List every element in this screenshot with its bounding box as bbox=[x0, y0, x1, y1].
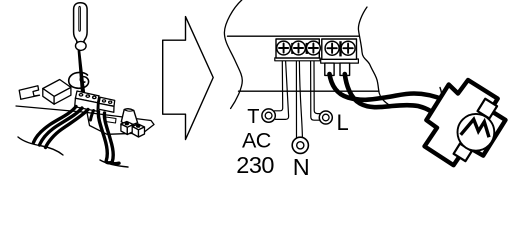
screw B2 bbox=[341, 41, 355, 55]
wire loop around shaft bbox=[69, 72, 89, 88]
screw 2 on block 2 bbox=[108, 101, 112, 104]
wire 1 of left bundle bbox=[34, 107, 77, 143]
mains wire upper to motor bbox=[330, 74, 445, 100]
screw 1 on block 2 bbox=[102, 99, 106, 102]
wire 2 of centre bundle bbox=[104, 113, 119, 164]
motor brush cap 2 bbox=[454, 144, 472, 162]
bench surface arc centre bbox=[100, 160, 128, 167]
svg-text:AC: AC bbox=[242, 128, 271, 152]
short wire stub under blocks bbox=[91, 111, 94, 121]
3D connector box (upper left) bbox=[43, 80, 71, 105]
3D terminal block 1 (3 screws) bbox=[75, 91, 99, 111]
panel torn edge left bbox=[224, 0, 242, 109]
panel torn edge right bbox=[358, 7, 388, 105]
bench surface arc left bbox=[18, 137, 63, 155]
screwdriver handle bbox=[74, 3, 88, 43]
wire 1 of centre bundle bbox=[98, 112, 112, 163]
screw 2 on block 1 bbox=[85, 94, 90, 98]
ring lug T bbox=[262, 109, 275, 122]
screwdriver ferrule bulb bbox=[76, 41, 87, 50]
mounting plate (right, perspective) bbox=[87, 113, 154, 135]
screw A3 bbox=[307, 41, 321, 55]
motor housing cross bbox=[425, 80, 506, 165]
ring lug N bbox=[292, 137, 308, 153]
svg-text:T: T bbox=[247, 106, 259, 128]
wire 3 of left bundle bbox=[46, 110, 89, 148]
ring lug L bbox=[319, 111, 332, 124]
wire 2 of left bundle bbox=[40, 108, 83, 145]
cube connector 1 on plate bbox=[121, 122, 133, 135]
screw A2 bbox=[292, 41, 306, 55]
screwdriver shaft bbox=[78, 50, 85, 94]
wire L vertical pair bbox=[311, 61, 320, 120]
wire T vertical pair bbox=[275, 61, 283, 111]
panel top line bbox=[228, 35, 360, 37]
divider bar block B bbox=[339, 41, 341, 56]
screw B1 bbox=[325, 41, 339, 55]
divider bars block A bbox=[291, 43, 293, 54]
clamp top rim bbox=[124, 110, 134, 112]
mounting plate back edge bbox=[16, 106, 88, 113]
mains wire lower to motor bbox=[345, 74, 441, 120]
motor brush cap 1 bbox=[478, 99, 498, 119]
arrow bbox=[163, 17, 214, 140]
cable sleeve stub 1 bbox=[325, 63, 334, 75]
motor circle bbox=[458, 114, 495, 151]
3D terminal block 2 (2 screws) bbox=[99, 97, 115, 112]
svg-text:N: N bbox=[293, 154, 310, 178]
sleeve tick marks bbox=[440, 88, 442, 110]
motor letter M bbox=[461, 119, 489, 137]
spade tab connector (upper left) bbox=[19, 86, 39, 100]
screw 1 on block 1 bbox=[79, 93, 84, 97]
cable sleeve stub 2 bbox=[340, 63, 350, 75]
cube connector 2 on plate bbox=[132, 124, 144, 137]
svg-text:L: L bbox=[337, 110, 349, 135]
terminal block A (3 poles) bbox=[275, 58, 320, 61]
screw 3 on block 1 bbox=[92, 96, 97, 100]
cable clamp on plate bbox=[121, 109, 137, 125]
terminal block B (2 poles) bbox=[321, 59, 359, 63]
screw A1 bbox=[277, 41, 291, 55]
panel bottom line bbox=[239, 90, 380, 92]
wire N vertical pair bbox=[295, 61, 297, 139]
svg-text:230: 230 bbox=[236, 152, 274, 178]
slot hole in plate bbox=[106, 117, 117, 123]
